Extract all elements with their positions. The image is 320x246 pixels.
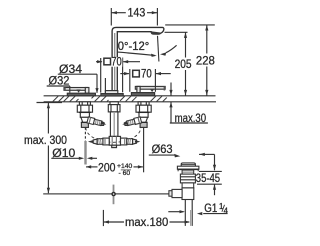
swivel arc right	[166, 45, 177, 52]
dimension 200 +140/-60	[86, 161, 144, 177]
svg-text:200: 200	[98, 161, 116, 175]
dimension 228	[196, 25, 215, 96]
label G 1 1/4	[197, 201, 229, 215]
center shank and column below deck	[108, 102, 120, 148]
svg-text:max.30: max.30	[175, 111, 207, 125]
svg-text:70: 70	[111, 55, 122, 69]
dimension 35-45	[196, 153, 222, 195]
svg-text:205: 205	[175, 57, 192, 71]
drain pop-up waste	[169, 163, 199, 226]
svg-text:max.180: max.180	[125, 215, 169, 229]
svg-text:- 60: - 60	[119, 170, 131, 177]
right handle unit	[131, 86, 165, 95]
spout body	[112, 27, 164, 95]
label Ø32	[47, 73, 70, 92]
dimension 205	[175, 32, 192, 95]
right shank below deck	[136, 102, 151, 128]
top right hose	[121, 117, 141, 128]
label Ø34	[58, 62, 99, 93]
svg-text:Ø10: Ø10	[52, 146, 75, 160]
deck slab with hatching	[44, 96, 216, 102]
horizontal pop-up rod	[43, 193, 169, 195]
swivel dashed arc below	[86, 128, 141, 143]
svg-text:70: 70	[141, 67, 152, 81]
svg-text:143: 143	[128, 5, 146, 19]
center escutcheon	[101, 78, 123, 96]
svg-text:228: 228	[196, 53, 215, 67]
svg-text:35-45: 35-45	[196, 171, 221, 185]
left handle unit	[64, 88, 95, 96]
label Ø63	[149, 142, 181, 158]
square 70 label lower	[120, 67, 170, 92]
extension line below right shank	[143, 127, 145, 172]
square 70 label upper	[96, 55, 140, 93]
pop-up rod vertical (Ø10)	[84, 127, 86, 141]
svg-text:Ø63: Ø63	[152, 142, 173, 156]
left shank below deck	[77, 102, 92, 128]
rod tee coupler	[113, 185, 115, 205]
bottom left hose	[88, 138, 109, 145]
bottom right hose	[121, 138, 141, 145]
small arrow at pipe	[168, 211, 183, 213]
extension line aerator (205 ref)	[165, 31, 188, 33]
max.30 label	[169, 102, 208, 125]
extension line top (228 ref)	[165, 24, 215, 26]
swivel arc left	[118, 52, 155, 55]
svg-text:G1: G1	[204, 201, 217, 215]
top left hose	[87, 117, 107, 128]
max.30 upper arrow	[170, 83, 172, 96]
svg-text:0°-12°: 0°-12°	[118, 39, 150, 53]
dimension max.180	[103, 210, 189, 229]
dimension max.300	[24, 103, 67, 194]
swivel pivot line	[158, 36, 159, 62]
label Ø10	[51, 146, 97, 160]
svg-text:max. 300: max. 300	[24, 133, 67, 147]
dimension 143	[111, 5, 157, 25]
svg-text:Ø32: Ø32	[49, 73, 70, 87]
